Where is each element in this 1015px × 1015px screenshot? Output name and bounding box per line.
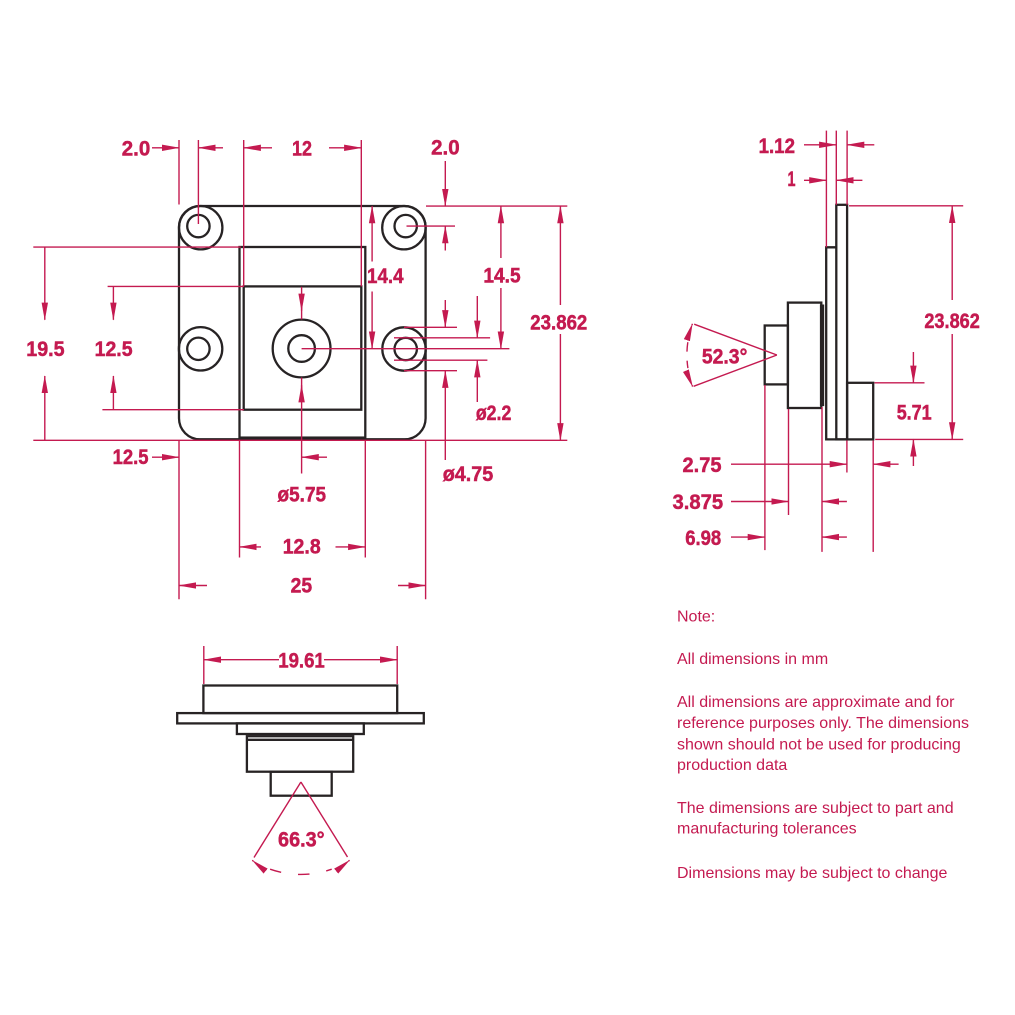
svg-text:52.3°: 52.3° (702, 344, 748, 368)
side view: lens barrel (765, 326, 788, 385)
dim 1.12 leader arrow (804, 144, 836, 146)
dim 12.5 bottom leader arrow (152, 456, 179, 458)
svg-text:6.98: 6.98 (685, 526, 721, 550)
dim 12.5 bottom second arrow (302, 456, 327, 458)
svg-text:2.0: 2.0 (431, 135, 460, 159)
dim 2.0 left leader arrow (152, 147, 179, 149)
front view: hole bottom-left ring (179, 327, 222, 370)
extension line left hole center top (197, 140, 199, 224)
extension line module top left (33, 246, 241, 248)
dim 3.875 second arrow (822, 501, 847, 503)
dim 23.862 front upper segment (559, 206, 561, 305)
extension line hole inner bottom (394, 359, 487, 361)
front view: sensor package rectangle 12 (244, 286, 362, 409)
dim 12.8 right arrow (336, 546, 366, 548)
extension line plate front bottom (821, 407, 823, 552)
extension line pcb back bottom (846, 440, 848, 472)
front view: module plate rectangle 12.8 (240, 247, 366, 438)
extension line module left bottom (239, 440, 241, 557)
front view: hole top-left ring (179, 206, 222, 249)
extension line connector back bottom (872, 440, 874, 552)
svg-text:5.71: 5.71 (897, 401, 932, 425)
dim 12.5 left upper segment (112, 286, 114, 319)
svg-text:14.4: 14.4 (367, 264, 404, 288)
dim 2.0 right down arrow (444, 161, 446, 206)
svg-text:shown should not be used for p: shown should not be used for producing (677, 736, 961, 753)
bottom view: barrel (271, 772, 332, 796)
svg-text:12: 12 (292, 136, 312, 160)
fov cone left leg bottom view (254, 782, 301, 858)
extension line hole inner top (394, 337, 490, 339)
svg-text:19.61: 19.61 (278, 649, 325, 673)
extension line housing front bottom (788, 409, 790, 515)
svg-text:The dimensions are subject to: The dimensions are subject to part and (677, 800, 954, 817)
dim o4.75 down arrow (444, 300, 446, 327)
svg-text:ø4.75: ø4.75 (443, 462, 494, 486)
front view: lens outer circle (273, 320, 331, 378)
extension line sensor top left (108, 285, 244, 287)
extension line pcb bottom right (875, 438, 963, 440)
dim o5.75 upper arrow (301, 287, 303, 320)
dim 19.5 upper segment (44, 247, 46, 320)
svg-text:12.5: 12.5 (113, 445, 149, 469)
dim 19.61 right arrow (324, 659, 397, 661)
extension line board bottom long (33, 439, 567, 441)
dim o2.2 up arrow (476, 360, 478, 402)
dim 1 second arrow (836, 179, 862, 181)
dim 25 right arrow (398, 585, 426, 587)
svg-text:14.5: 14.5 (483, 263, 520, 287)
bottom view: wide plate (177, 713, 424, 723)
dim 1 leader arrow (804, 179, 826, 181)
dim 6.98 leader arrow (731, 536, 765, 538)
svg-text:Note:: Note: (677, 608, 715, 625)
fov dashed arc bottom view (252, 859, 253, 862)
side view: pcb (836, 205, 847, 440)
extension line connector top (875, 382, 925, 384)
extension line top-right hole center (407, 225, 456, 227)
front view: camera board outline (179, 206, 426, 439)
dim 1.12 second arrow (847, 144, 874, 146)
svg-text:19.5: 19.5 (26, 337, 64, 361)
dim 14.5 upper segment (500, 206, 502, 258)
extension line sensor bottom left (102, 409, 244, 411)
extension line lens and hole center horizontal (302, 348, 510, 350)
extension line board right bottom (425, 440, 427, 599)
svg-text:ø5.75: ø5.75 (278, 482, 327, 506)
svg-text:2.75: 2.75 (683, 453, 722, 477)
extension line board left top (178, 140, 180, 205)
fov dashed arc side view (691, 324, 693, 325)
svg-text:23.862: 23.862 (530, 310, 587, 334)
front view: hole bottom-right ring (382, 327, 425, 370)
svg-text:23.862: 23.862 (924, 309, 980, 333)
fov cone upper leg side view (694, 324, 777, 355)
dim 12.8 left arrow (240, 546, 262, 548)
side view: thin plate (820, 305, 824, 407)
dim 2.0 right up arrow (444, 226, 446, 250)
dim 14.4 lower segment (371, 292, 373, 349)
svg-text:12.5: 12.5 (95, 337, 133, 361)
svg-text:production data: production data (677, 757, 787, 774)
extension line pcb back top (846, 131, 848, 205)
dim o5.75 lower arrow and leader (301, 378, 303, 474)
svg-text:ø2.2: ø2.2 (476, 401, 512, 425)
dim o4.75 up arrow (444, 371, 446, 460)
bottom view: housing (247, 736, 353, 772)
extension line pcb front top (835, 131, 837, 205)
dim 3.875 leader arrow (731, 501, 789, 503)
dim 25 left arrow (179, 585, 207, 587)
svg-text:12.8: 12.8 (283, 535, 321, 559)
dim 2.0 left second arrow (198, 147, 223, 149)
extension line sensor right top (360, 140, 362, 286)
dim 23.862 side lower segment (951, 334, 953, 439)
svg-text:66.3°: 66.3° (278, 828, 325, 852)
bottom view: board edge (203, 686, 397, 714)
svg-text:2.0: 2.0 (122, 136, 151, 160)
dim 12 left arrow (244, 147, 272, 149)
extension line hole outer bottom (404, 370, 457, 372)
extension line module right bottom (364, 440, 366, 557)
front view: lens inner circle (288, 335, 315, 362)
dim 5.71 up arrow (912, 439, 914, 466)
dim 6.98 second arrow (822, 536, 847, 538)
dim 5.71 down arrow (912, 352, 914, 383)
dim 2.75 leader arrow (731, 463, 847, 465)
dim 14.5 lower segment (500, 288, 502, 349)
dim 2.75 second arrow (873, 463, 898, 465)
fov cone lower leg side view (694, 355, 777, 386)
side view: housing block (788, 303, 821, 408)
dim 19.5 lower segment (44, 376, 46, 440)
extension line barrel front bottom (764, 385, 766, 550)
svg-text:1.12: 1.12 (759, 134, 795, 158)
dim 23.862 front lower segment (559, 334, 561, 440)
extension line sensor left top (243, 140, 245, 286)
side view: connector (847, 383, 873, 440)
svg-text:manufacturing tolerances: manufacturing tolerances (677, 821, 857, 838)
front view: hole top-right ring (382, 206, 425, 249)
fov cone right leg bottom view (301, 782, 348, 857)
extension line 19.61 left (203, 646, 205, 684)
extension line 19.61 right (396, 646, 398, 684)
bottom view: housing top inner line (247, 739, 353, 741)
dim 14.4 upper segment (371, 206, 373, 261)
extension line board top right (426, 205, 567, 207)
svg-text:3.875: 3.875 (673, 490, 724, 514)
dim 12.5 left lower segment (112, 376, 114, 410)
dim 12 right arrow (329, 147, 361, 149)
extension line hole outer top (404, 326, 457, 328)
extension line pcb top right (849, 205, 963, 207)
extension line board left bottom (178, 440, 180, 599)
extension line mount front top (825, 131, 827, 248)
svg-text:25: 25 (291, 573, 313, 597)
side view: mount plate (826, 247, 847, 439)
svg-text:Dimensions may be subject to c: Dimensions may be subject to change (677, 865, 947, 882)
bottom view: module step (237, 723, 364, 734)
svg-text:All dimensions in mm: All dimensions in mm (677, 651, 828, 668)
dim 19.61 left arrow (204, 659, 279, 661)
dim 23.862 side upper segment (951, 206, 953, 300)
dim o2.2 down arrow (476, 296, 478, 338)
svg-text:reference purposes only. The d: reference purposes only. The dimensions (677, 715, 969, 732)
svg-text:1: 1 (788, 167, 796, 191)
svg-text:All dimensions are approximate: All dimensions are approximate and for (677, 694, 955, 711)
